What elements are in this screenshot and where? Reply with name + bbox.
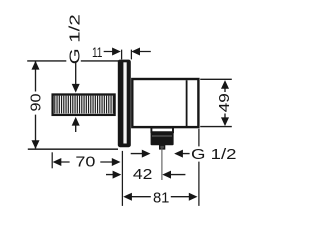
threaded pipe G1/2 (hatched) bbox=[53, 95, 115, 115]
wall escutcheon plate (side view, dark with white stripe) bbox=[118, 60, 131, 148]
70 dimension line segments bbox=[61, 161, 112, 163]
G1/2 top leader vertical drop bbox=[75, 61, 77, 84]
42 left arrow (points right) bbox=[113, 171, 122, 179]
bottom G1/2 leader lines bbox=[131, 153, 190, 155]
svg-text:G 1/2: G 1/2 bbox=[66, 14, 83, 64]
11 left arrow (points right) bbox=[112, 48, 121, 56]
81 right arrow bbox=[189, 193, 198, 201]
outlet nut (dark) bbox=[151, 132, 174, 146]
49 dimension line (gaps at text) bbox=[224, 88, 226, 118]
42 dimension arrow lines bbox=[106, 174, 185, 176]
81 left arrow bbox=[123, 193, 132, 201]
42 right arrow (points left) bbox=[162, 171, 171, 179]
svg-text:70: 70 bbox=[75, 153, 95, 170]
outlet thread stub bbox=[160, 145, 165, 149]
svg-text:11: 11 bbox=[92, 44, 103, 60]
wall surface line bbox=[28, 148, 118, 150]
49 top arrow bbox=[221, 80, 229, 89]
11 right arrow (points left) bbox=[131, 48, 140, 56]
body (square housing) bbox=[132, 79, 198, 127]
11 dimension arrow lines bbox=[104, 51, 151, 53]
svg-text:81: 81 bbox=[153, 190, 170, 207]
70 left arrow bbox=[53, 158, 62, 166]
outlet collar bbox=[151, 128, 173, 133]
svg-text:G 1/2: G 1/2 bbox=[191, 146, 237, 163]
81 dimension line segments bbox=[131, 196, 189, 198]
svg-text:90: 90 bbox=[28, 94, 45, 112]
arrowheads bbox=[32, 48, 230, 201]
G1/2 bottom right arrow (points left at nut) bbox=[174, 150, 183, 158]
under-pipe arrow tail bbox=[75, 125, 77, 132]
11 extension lines bbox=[122, 50, 132, 60]
svg-text:42: 42 bbox=[133, 166, 153, 183]
49 bottom arrow bbox=[221, 117, 229, 126]
70 right arrow bbox=[112, 158, 121, 166]
90 dimension line (gaps at text) bbox=[35, 61, 37, 148]
under-pipe arrow (up onto pipe bottom) bbox=[72, 117, 80, 126]
70 left extension line bbox=[51, 152, 53, 168]
dimension graphics bbox=[27, 50, 232, 206]
90 bottom arrow bbox=[32, 140, 40, 149]
body inner edge line bbox=[186, 80, 188, 126]
top extension / leader line y=60.9 (gap at rotated G) bbox=[27, 60, 122, 62]
G1/2 top arrow (down onto pipe) bbox=[72, 84, 80, 93]
90 top arrow bbox=[32, 61, 40, 70]
right extension line x=198.9 (gap at G text) bbox=[198, 129, 200, 206]
shared left extension line x=122.4 bbox=[121, 151, 123, 206]
outlet centre extension line (grey) bbox=[161, 148, 163, 180]
svg-text:49: 49 bbox=[216, 93, 233, 112]
49 extension lines bbox=[200, 79, 232, 126]
G1/2 bottom left arrow (points right at nut) bbox=[142, 150, 151, 158]
